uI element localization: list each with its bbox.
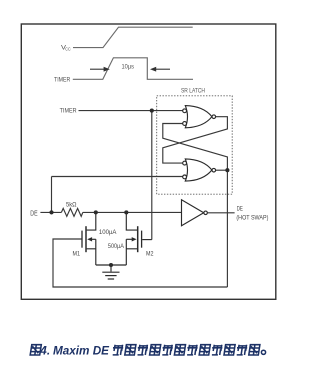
- svg-text:TIMER: TIMER: [54, 77, 70, 84]
- svg-text:5kΩ: 5kΩ: [66, 202, 77, 209]
- svg-text:M2: M2: [146, 251, 154, 258]
- svg-text:SR LATCH: SR LATCH: [181, 88, 205, 95]
- svg-text:10µs: 10µs: [122, 64, 135, 71]
- svg-text:500µA: 500µA: [108, 243, 125, 250]
- svg-text:TIMER: TIMER: [60, 107, 77, 114]
- svg-text:Maxim DE: Maxim DE: [53, 346, 109, 358]
- svg-text:100µA: 100µA: [99, 229, 117, 236]
- svg-text:(HOT SWAP): (HOT SWAP): [236, 214, 268, 221]
- svg-text:DE: DE: [237, 205, 243, 212]
- svg-text:M1: M1: [73, 251, 81, 258]
- svg-text:DE: DE: [30, 211, 38, 218]
- svg-text:CC: CC: [65, 47, 71, 52]
